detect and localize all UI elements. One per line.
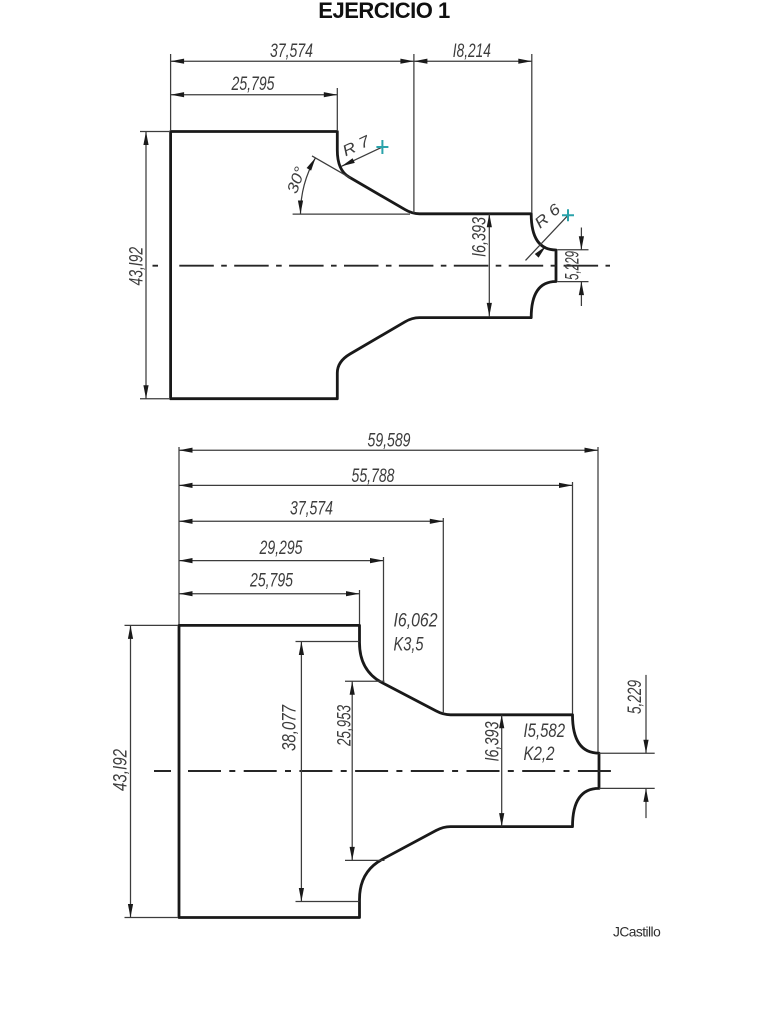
svg-text:43,I92: 43,I92 [111,749,132,791]
dimension 25,953 [351,681,353,860]
centerline (lower view) [154,770,171,772]
extension lines 43,192 (lower view) [125,624,178,626]
extension line x=571 (55,788) [572,482,574,714]
dimension 59,589 [179,449,598,451]
svg-text:29,295: 29,295 [259,538,303,559]
dimension 16,393 (lower view) [501,715,503,827]
dimension 25,795 (upper view) [171,94,338,96]
dimension 18,214 (upper view) [414,60,532,62]
svg-text:I6,393: I6,393 [470,217,491,257]
svg-text:37,574: 37,574 [290,498,333,519]
extension lines 38,077 [296,641,360,643]
dimension 37,574 (lower view) [179,520,443,522]
dimension 37,574 (upper view) [171,60,414,62]
dimension 38,077 [300,642,302,902]
dimension 5,229 (lower view) [645,675,647,753]
svg-text:25,953: 25,953 [335,705,356,747]
dimension 55,788 [179,484,573,486]
angle reference line along slope [312,156,351,178]
angle reference line horizontal [293,213,410,215]
extension line x=531.8 (18,214 right) [531,54,533,213]
extension line x=597.5 (59,589) [597,447,599,752]
svg-text:K3,5: K3,5 [394,635,424,656]
extension line left top-dims x=170.6 [170,54,172,130]
extension line x=359.5 (25,795) [359,590,361,624]
svg-text:43,I92: 43,I92 [126,247,147,286]
svg-text:55,788: 55,788 [352,466,395,487]
svg-text:I6,393: I6,393 [482,721,503,761]
center cross R7 [376,140,388,154]
part profile (lower view) [179,625,599,917]
dimension 5,229 (upper view) [580,228,582,250]
svg-text:25,795: 25,795 [249,570,293,591]
svg-text:EJERCICIO 1: EJERCICIO 1 [318,0,450,23]
svg-text:5,229: 5,229 [562,251,583,280]
svg-text:37,574: 37,574 [270,41,313,62]
svg-text:5,229: 5,229 [625,680,646,714]
dimension 29,295 [179,560,384,562]
dimension 25,795 (lower view) [179,593,360,595]
svg-text:38,077: 38,077 [280,704,301,751]
svg-text:I8,214: I8,214 [453,41,491,62]
dimension 43,192 (lower view) [130,625,132,917]
extension lines 43,192 (upper view) [140,131,169,133]
svg-text:59,589: 59,589 [368,431,411,452]
dimension 16,393 (upper view) [488,214,490,317]
extension lines 5,229 (lower view) [599,752,655,754]
svg-text:K2,2: K2,2 [524,744,555,765]
extension line x=383.5 (29,295) [383,557,385,682]
svg-text:I5,582: I5,582 [524,721,566,742]
svg-text:25,795: 25,795 [231,74,275,95]
leader R 7 [342,147,383,166]
extension line left bottom-dims x=179 [178,447,180,624]
extension lines 25,953 [345,680,385,682]
extension line x=337.3 (25,795) [336,88,338,130]
center cross R6 [562,209,574,221]
part profile (upper view) [171,132,556,399]
angle arc 30deg [301,158,316,214]
dimension 43,192 (upper view) [145,132,147,399]
svg-text:JCastillo: JCastillo [613,925,661,940]
extension lines 5,229 (upper view) [558,249,589,251]
extension line x=413.9 (37,574/18,214) [413,54,415,213]
leader R 6 [526,215,569,260]
extension line x=443.3 (37,574) [442,518,444,714]
svg-text:I6,062: I6,062 [394,611,438,632]
centerline (upper view) [153,265,159,267]
